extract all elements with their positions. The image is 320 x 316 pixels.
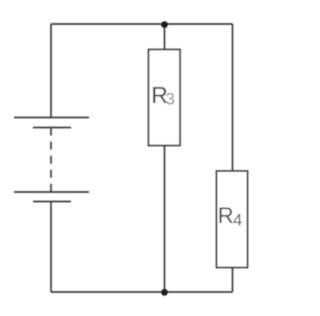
svg-text:3: 3	[166, 90, 175, 109]
svg-text:R: R	[218, 203, 234, 228]
svg-text:4: 4	[233, 210, 242, 229]
